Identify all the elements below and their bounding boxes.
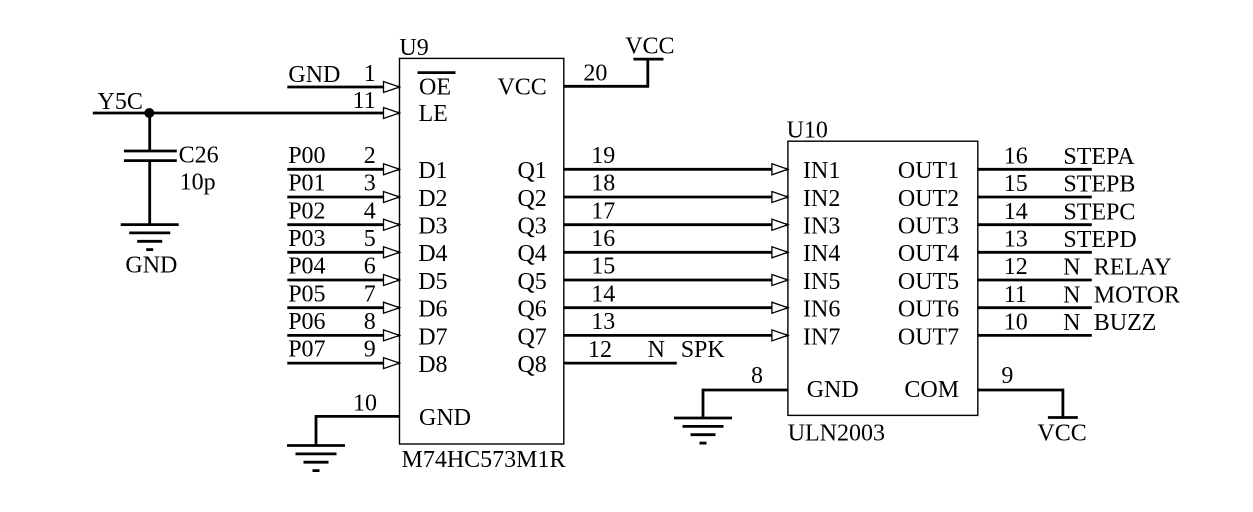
wire GND to U9 pin 1 — [287, 86, 399, 89]
input arrow U9 pin 5 — [384, 247, 400, 258]
input arrow U10 IN2 — [772, 192, 788, 203]
U10 pin label OUT6 — [898, 297, 959, 323]
svg-text:1: 1 — [364, 61, 376, 87]
U10 pin label IN5 — [803, 269, 840, 295]
pin number 16 — [1004, 144, 1028, 170]
ground symbol below U9 pin 10 — [287, 446, 345, 471]
U9 pin label Q5 — [517, 269, 546, 295]
wire U9 Q1 (pin 19) to U10 IN1 — [564, 168, 788, 171]
svg-text:IN4: IN4 — [803, 241, 840, 267]
U10 pin label OUT3 — [898, 214, 959, 240]
svg-text:OUT2: OUT2 — [898, 186, 959, 212]
svg-text:D7: D7 — [418, 324, 447, 350]
svg-text:2: 2 — [364, 143, 376, 169]
pin number 3 — [364, 171, 376, 197]
svg-text:8: 8 — [364, 309, 376, 335]
net label STEPD — [1063, 227, 1136, 253]
svg-text:N: N — [1063, 310, 1080, 336]
svg-text:P07: P07 — [288, 337, 325, 363]
svg-text:18: 18 — [591, 171, 615, 197]
svg-text:OE: OE — [419, 75, 451, 101]
net label STEPB — [1063, 172, 1135, 198]
pin number 14 — [591, 281, 615, 307]
net label P02 — [288, 198, 325, 224]
U9 pin label D8 — [418, 352, 447, 378]
U9 pin label Q1 — [517, 158, 546, 184]
svg-text:10: 10 — [353, 390, 377, 416]
U10 pin label OUT2 — [898, 186, 959, 212]
svg-text:GND: GND — [807, 377, 859, 403]
svg-text:N: N — [648, 337, 665, 363]
pin number 18 — [591, 171, 615, 197]
VCC net label (bottom right) — [1037, 420, 1086, 446]
U10 pin label IN7 — [803, 324, 840, 350]
svg-text:10p: 10p — [180, 169, 216, 195]
svg-text:7: 7 — [364, 281, 376, 307]
ground symbol below C26 — [121, 225, 179, 250]
U9 pin label D6 — [418, 297, 447, 323]
pin number 10 — [353, 390, 377, 416]
U9 pin label LE — [419, 101, 448, 127]
svg-text:P05: P05 — [288, 281, 325, 307]
svg-text:D5: D5 — [418, 269, 447, 295]
svg-text:14: 14 — [1004, 199, 1028, 225]
svg-text:Q8: Q8 — [517, 352, 546, 378]
pin number 8 — [751, 363, 763, 389]
VCC power symbol (top) — [633, 58, 663, 61]
capacitor C26 — [124, 151, 177, 161]
input arrow U9 pin 3 — [384, 192, 400, 203]
svg-text:11: 11 — [353, 88, 376, 114]
U9 pin label OE (active low, overline) — [418, 73, 456, 101]
svg-text:STEPB: STEPB — [1063, 172, 1135, 198]
svg-text:P04: P04 — [288, 254, 325, 280]
svg-text:IN1: IN1 — [803, 158, 840, 184]
C26 reference label — [179, 143, 219, 169]
U10 pin label IN1 — [803, 158, 840, 184]
svg-text:OUT3: OUT3 — [898, 214, 959, 240]
wire P01 to U9 pin 3 — [287, 196, 399, 199]
svg-text:Q1: Q1 — [517, 158, 546, 184]
U10 pin label IN4 — [803, 241, 840, 267]
net label N RELAY — [1063, 255, 1171, 281]
net label Y5C — [98, 89, 143, 115]
pin number 11 — [353, 88, 376, 114]
svg-text:Q5: Q5 — [517, 269, 546, 295]
pin number 15 — [1004, 171, 1028, 197]
pin number 12 — [588, 337, 612, 363]
pin number 10 — [1004, 310, 1028, 336]
pin number 13 — [1004, 227, 1028, 253]
svg-text:Q2: Q2 — [517, 186, 546, 212]
svg-text:12: 12 — [1004, 254, 1028, 280]
svg-text:17: 17 — [591, 198, 615, 224]
wire P02 to U9 pin 4 — [287, 223, 399, 226]
U10 pin label OUT7 — [898, 324, 959, 350]
wire C26 bottom plate to ground — [148, 162, 151, 225]
svg-text:STEPA: STEPA — [1063, 144, 1135, 170]
svg-text:U10: U10 — [787, 118, 828, 144]
wire U10 OUT2 (pin 15) — [978, 196, 1092, 199]
wire U9 Q3 (pin 17) to U10 IN3 — [564, 223, 788, 226]
pin number 19 — [591, 143, 615, 169]
svg-text:Q6: Q6 — [517, 297, 546, 323]
svg-text:P02: P02 — [288, 198, 325, 224]
wire U9 Q5 (pin 15) to U10 IN5 — [564, 279, 788, 282]
wire P05 to U9 pin 7 — [287, 306, 399, 309]
svg-text:10: 10 — [1004, 310, 1028, 336]
svg-text:COM: COM — [904, 377, 959, 403]
wire U10 OUT3 (pin 14) — [978, 223, 1092, 226]
wire Y5C to U9 pin 11 — [93, 112, 400, 115]
wire P04 to U9 pin 6 — [287, 279, 399, 282]
VCC power symbol (bottom right) — [1048, 416, 1078, 419]
pin number 15 — [591, 254, 615, 280]
svg-text:D6: D6 — [418, 297, 447, 323]
svg-text:VCC: VCC — [625, 34, 674, 60]
svg-text:Q7: Q7 — [517, 324, 546, 350]
wire P00 to U9 pin 2 — [287, 168, 399, 171]
net label P06 — [288, 309, 325, 335]
wire P07 to U9 pin 9 — [287, 362, 399, 365]
svg-text:STEPD: STEPD — [1063, 227, 1136, 253]
wire U10 COM (pin 9) to VCC — [978, 389, 1063, 418]
svg-text:GND: GND — [419, 405, 471, 431]
U9 pin label Q7 — [517, 324, 546, 350]
svg-text:P00: P00 — [288, 143, 325, 169]
input arrow U10 IN4 — [772, 247, 788, 258]
svg-text:5: 5 — [364, 226, 376, 252]
svg-text:LE: LE — [419, 101, 448, 127]
input arrow U10 IN7 — [772, 330, 788, 341]
svg-text:IN6: IN6 — [803, 297, 840, 323]
svg-text:D3: D3 — [418, 214, 447, 240]
wire U9 Q4 (pin 16) to U10 IN4 — [564, 251, 788, 254]
svg-text:P06: P06 — [288, 309, 325, 335]
svg-text:OUT1: OUT1 — [898, 158, 959, 184]
U10 pin label GND — [807, 377, 859, 403]
wire P03 to U9 pin 5 — [287, 251, 399, 254]
wire U9 pin 10 to ground — [316, 415, 400, 446]
svg-text:9: 9 — [364, 337, 376, 363]
wire U9 Q2 (pin 18) to U10 IN2 — [564, 196, 788, 199]
input arrow U9 pin 9 — [384, 358, 400, 369]
U10 pin label IN6 — [803, 297, 840, 323]
wire U10 OUT6 (pin 11) — [978, 306, 1092, 309]
svg-text:GND: GND — [125, 253, 177, 279]
net label GND (U9 pin 1) — [288, 62, 340, 88]
svg-text:6: 6 — [364, 254, 376, 280]
svg-text:VCC: VCC — [497, 75, 546, 101]
net label P01 — [288, 171, 325, 197]
pin number 9 — [1001, 363, 1013, 389]
svg-text:8: 8 — [751, 363, 763, 389]
net label P00 — [288, 143, 325, 169]
U9 pin label Q4 — [517, 241, 546, 267]
U10 pin label OUT5 — [898, 269, 959, 295]
input arrow U9 pin 8 — [384, 330, 400, 341]
pin number 2 — [364, 143, 376, 169]
pin number 20 — [583, 60, 607, 86]
U9 pin label Q3 — [517, 214, 546, 240]
svg-text:C26: C26 — [179, 143, 219, 169]
U9 reference designator — [399, 35, 428, 61]
net label N BUZZ — [1063, 310, 1156, 336]
U10 pin label COM — [904, 377, 959, 403]
svg-text:16: 16 — [1004, 144, 1028, 170]
svg-text:9: 9 — [1001, 363, 1013, 389]
wire U10 OUT7 (pin 10) — [978, 334, 1092, 337]
svg-text:Y5C: Y5C — [98, 89, 143, 115]
ground net label GND — [125, 253, 177, 279]
pin number 13 — [591, 309, 615, 335]
svg-text:OUT4: OUT4 — [898, 241, 959, 267]
U9 pin label D7 — [418, 324, 447, 350]
wire junction to C26 top plate — [148, 113, 151, 150]
pin number 9 — [364, 337, 376, 363]
wire U9 Q8 (pin 12) N SPK — [564, 362, 677, 365]
U10 value label ULN2003 — [788, 421, 885, 447]
svg-text:OUT7: OUT7 — [898, 324, 959, 350]
svg-text:M74HC573M1R: M74HC573M1R — [402, 447, 566, 473]
pin number 11 — [1004, 282, 1027, 308]
svg-text:GND: GND — [288, 62, 340, 88]
net label N MOTOR — [1063, 282, 1180, 308]
net label STEPC — [1063, 199, 1135, 225]
IC U9 M74HC573M1R body — [400, 58, 564, 444]
U9 pin label D3 — [418, 214, 447, 240]
svg-text:P03: P03 — [288, 226, 325, 252]
input arrow U9 pin 1 — [384, 82, 400, 93]
U9 pin label D5 — [418, 269, 447, 295]
svg-text:D4: D4 — [418, 241, 447, 267]
svg-text:N: N — [1063, 282, 1080, 308]
svg-text:STEPC: STEPC — [1063, 199, 1135, 225]
input arrow U9 pin 4 — [384, 219, 400, 230]
wire U10 OUT1 (pin 16) — [978, 168, 1092, 171]
wire U9 Q6 (pin 14) to U10 IN6 — [564, 306, 788, 309]
input arrow U9 pin 7 — [384, 302, 400, 313]
svg-text:P01: P01 — [288, 171, 325, 197]
svg-text:ULN2003: ULN2003 — [788, 421, 885, 447]
U9 value label M74HC573M1R — [402, 447, 566, 473]
U10 pin label OUT4 — [898, 241, 959, 267]
VCC net label (top) — [625, 34, 674, 60]
U9 pin label D2 — [418, 186, 447, 212]
U10 pin label OUT1 — [898, 158, 959, 184]
svg-text:15: 15 — [1004, 171, 1028, 197]
svg-text:IN5: IN5 — [803, 269, 840, 295]
svg-text:13: 13 — [1004, 227, 1028, 253]
svg-text:16: 16 — [591, 226, 615, 252]
pin number 16 — [591, 226, 615, 252]
svg-text:13: 13 — [591, 309, 615, 335]
svg-text:20: 20 — [583, 60, 607, 86]
input arrow U10 IN3 — [772, 219, 788, 230]
input arrow U9 pin 6 — [384, 275, 400, 286]
ground symbol below U10 pin 8 — [674, 418, 732, 443]
pin number 7 — [364, 281, 376, 307]
svg-text:19: 19 — [591, 143, 615, 169]
U9 pin label D1 — [418, 158, 447, 184]
svg-text:Q3: Q3 — [517, 214, 546, 240]
pin number 17 — [591, 198, 615, 224]
junction node on Y5C net — [144, 108, 154, 118]
svg-text:SPK: SPK — [681, 337, 726, 363]
pin number 12 — [1004, 254, 1028, 280]
svg-text:D1: D1 — [418, 158, 447, 184]
pin number 6 — [364, 254, 376, 280]
pin number 5 — [364, 226, 376, 252]
svg-text:RELAY: RELAY — [1094, 255, 1172, 281]
U9 pin label Q2 — [517, 186, 546, 212]
svg-text:14: 14 — [591, 281, 615, 307]
input arrow U10 IN5 — [772, 275, 788, 286]
wire U9 Q7 (pin 13) to U10 IN7 — [564, 334, 788, 337]
C26 value 10p — [180, 169, 216, 195]
net label P05 — [288, 281, 325, 307]
pin number 1 — [364, 61, 376, 87]
U9 pin label Q8 — [517, 352, 546, 378]
svg-text:IN3: IN3 — [803, 214, 840, 240]
pin number 14 — [1004, 199, 1028, 225]
U10 pin label IN2 — [803, 186, 840, 212]
svg-text:OUT6: OUT6 — [898, 297, 959, 323]
svg-text:4: 4 — [364, 198, 376, 224]
pin number 8 — [364, 309, 376, 335]
svg-text:D2: D2 — [418, 186, 447, 212]
wire P06 to U9 pin 8 — [287, 334, 399, 337]
svg-text:MOTOR: MOTOR — [1094, 282, 1180, 308]
svg-text:BUZZ: BUZZ — [1094, 310, 1157, 336]
svg-text:12: 12 — [588, 337, 612, 363]
svg-text:U9: U9 — [399, 35, 428, 61]
svg-text:VCC: VCC — [1037, 420, 1086, 446]
svg-text:15: 15 — [591, 254, 615, 280]
input arrow U10 IN1 — [772, 164, 788, 175]
svg-text:N: N — [1063, 255, 1080, 281]
U9 pin label Q6 — [517, 297, 546, 323]
U10 pin label IN3 — [803, 214, 840, 240]
svg-text:Q4: Q4 — [517, 241, 546, 267]
pin number 4 — [364, 198, 376, 224]
input arrow U9 pin 11 — [384, 108, 400, 119]
net label P04 — [288, 254, 325, 280]
wire U10 OUT4 (pin 13) — [978, 251, 1092, 254]
svg-text:OUT5: OUT5 — [898, 269, 959, 295]
U9 pin label VCC — [497, 75, 546, 101]
input arrow U9 pin 2 — [384, 164, 400, 175]
U10 reference designator — [787, 118, 828, 144]
svg-text:11: 11 — [1004, 282, 1027, 308]
U9 pin label D4 — [418, 241, 447, 267]
svg-text:IN7: IN7 — [803, 324, 840, 350]
input arrow U10 IN6 — [772, 302, 788, 313]
wire U9 pin 20 to VCC — [564, 59, 648, 88]
wire U10 OUT5 (pin 12) — [978, 279, 1092, 282]
net label P03 — [288, 226, 325, 252]
wire U10 pin 8 to ground — [703, 389, 788, 418]
IC U10 ULN2003 body — [788, 141, 978, 415]
net label P07 — [288, 337, 325, 363]
svg-text:IN2: IN2 — [803, 186, 840, 212]
net label N SPK — [648, 337, 726, 363]
svg-text:D8: D8 — [418, 352, 447, 378]
net label STEPA — [1063, 144, 1135, 170]
U9 pin label GND — [419, 405, 471, 431]
svg-text:3: 3 — [364, 171, 376, 197]
